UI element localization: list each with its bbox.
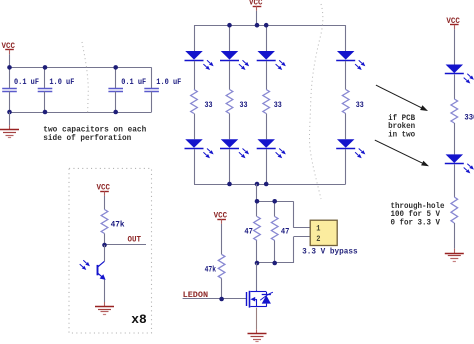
phototransistor Q2: [98, 245, 106, 280]
light arrows (emission of D4B): [355, 149, 365, 159]
wire R5 to bottom node: [256, 241, 258, 264]
LED D2A: [220, 51, 239, 61]
junction top bus c3: [264, 23, 269, 28]
wire col4 LED to resistor: [345, 61, 347, 90]
wire wire to pin 2: [294, 236, 311, 238]
svg-text:side of perforation: side of perforation: [43, 134, 131, 143]
wire col4 resistor to LED: [345, 114, 347, 140]
wire VCC to R10: [104, 196, 106, 210]
note: two capacitors on each side of perforation: [43, 126, 146, 144]
svg-text:in two: in two: [388, 130, 415, 139]
wire col1 resistor to LED: [194, 114, 196, 140]
wire R10 to OUT node: [104, 234, 106, 246]
wire node to R5: [256, 201, 258, 216]
svg-text:33: 33: [274, 100, 282, 110]
dashed outline box (repeated cell): [69, 168, 152, 333]
wire VCC to LED: [454, 29, 456, 64]
value label 47 (left): [244, 227, 253, 237]
resistor R4 33: [342, 90, 349, 114]
LED D2B: [220, 139, 239, 148]
wire bottom node to Q drain: [256, 263, 258, 290]
wire pin 2 down to bottom rail: [293, 237, 295, 263]
value label 33 (col 3): [274, 100, 282, 110]
junction cap bus A1: [7, 65, 12, 70]
value label 47 (right): [281, 227, 290, 237]
wire OUT net wire: [105, 244, 147, 246]
jumper JP1 (3.3 V bypass box): [310, 220, 337, 245]
wire col2 LED to resistor: [229, 61, 231, 90]
resistor R6 47: [271, 217, 278, 241]
value label 1.0 uF for C4: [156, 77, 181, 87]
junction bottom bus c3: [264, 182, 269, 187]
junction OUT junction: [102, 243, 107, 248]
junction cap bus A2: [43, 65, 48, 70]
wire VCC to top cap bus: [9, 54, 11, 67]
LED D5B: [445, 154, 464, 163]
note: if PCB broken in two: [388, 114, 415, 140]
perforation mark (left, dotted): [82, 42, 88, 114]
svg-text:1: 1: [316, 225, 320, 234]
pointer arrow (upper): [376, 85, 428, 111]
wire top rail down to jumper pin 1: [293, 201, 295, 228]
junction res bottom left: [255, 261, 260, 266]
junction top bus c2: [227, 23, 232, 28]
svg-text:OUT: OUT: [128, 235, 142, 244]
resistor R3 33: [263, 90, 270, 114]
wire col4 bus to LED: [345, 25, 347, 51]
wire col3 bus to LED: [266, 25, 268, 51]
light arrows (emission of D1B): [203, 149, 213, 159]
svg-text:x8: x8: [131, 313, 147, 327]
value label 1.0 uF for C2: [49, 77, 74, 87]
svg-text:0 for 3.3 V: 0 for 3.3 V: [391, 218, 441, 227]
value label 33 (col 2): [240, 100, 248, 110]
junction cap bus B3: [113, 110, 118, 115]
wire matrix bottom bus: [194, 184, 346, 186]
label x8: [131, 313, 147, 327]
light arrows (emission of D5A): [464, 74, 474, 84]
junction res top left: [255, 199, 260, 204]
LED D3A: [257, 51, 276, 61]
label 3.3 V bypass: [302, 248, 358, 257]
wire resistor to ground: [454, 223, 456, 249]
junction LEDON junction: [219, 297, 224, 302]
wire LED to resistor: [454, 74, 456, 99]
wire R6 to bottom node: [274, 241, 276, 264]
resistor R1 33: [191, 90, 198, 114]
junction res bottom right: [272, 261, 277, 266]
power symbol VCC (VCC right column): [446, 17, 460, 29]
svg-text:330: 330: [464, 113, 474, 123]
wire resistor top node rail: [257, 201, 294, 203]
wire col2 bus to LED: [229, 25, 231, 51]
value label 33 (right column): [464, 113, 474, 123]
light arrows (emission of D4A): [355, 60, 365, 70]
wire R7 to LEDON net: [221, 278, 223, 299]
power symbol VCC (VCC photo cell): [97, 184, 111, 196]
wire col1 LED to resistor: [194, 61, 196, 90]
junction cap bus A3: [113, 65, 118, 70]
wire VCC to R7: [221, 224, 223, 255]
ground symbol (MOSFET ground): [248, 329, 267, 341]
resistor R10 47k: [101, 210, 108, 234]
wire LEDON net to gate: [183, 298, 247, 300]
value label 33 (col 4): [356, 100, 364, 110]
capacitor C1: [2, 67, 17, 112]
wire Q1 source to ground: [256, 308, 258, 330]
wire resistor bottom node rail: [257, 262, 294, 264]
svg-text:47k: 47k: [111, 219, 125, 229]
junction bottom bus c2: [227, 182, 232, 187]
wire bottom bus to resistor node: [256, 184, 258, 201]
light arrows (emission of D1A): [203, 60, 213, 70]
transistor Q1 (N-MOSFET with body diode): [247, 290, 273, 307]
svg-text:33: 33: [356, 100, 364, 110]
wire resistor to LED: [454, 123, 456, 154]
resistor R8 33: [451, 99, 458, 123]
svg-text:47: 47: [281, 227, 290, 237]
svg-text:0.1 uF: 0.1 uF: [121, 77, 146, 87]
svg-text:0.1 uF: 0.1 uF: [14, 77, 39, 87]
value label 47k (mid): [205, 264, 217, 274]
LED D4B: [336, 139, 355, 148]
svg-text:33: 33: [205, 100, 213, 110]
light arrows (light into Q2): [80, 260, 90, 270]
wire bottom bus to ground: [9, 112, 11, 125]
LED D3B: [257, 139, 276, 148]
wire wire to pin 1: [294, 227, 311, 229]
note: through-hole resistor value: [391, 202, 445, 228]
svg-text:33: 33: [240, 100, 248, 110]
wire col3 LED to resistor: [266, 61, 268, 90]
light arrows (emission of D5B): [464, 164, 474, 174]
resistor R5 47: [254, 217, 261, 241]
resistor R7 47k: [218, 254, 225, 278]
wire col1 LED to bottom bus: [194, 149, 196, 184]
junction top bus vcc tap: [255, 23, 260, 28]
svg-text:1.0 uF: 1.0 uF: [49, 77, 74, 87]
power symbol VCC (VCC LED matrix): [249, 0, 263, 11]
wire top cap bus: [10, 67, 152, 69]
wire col1 bus to LED: [194, 25, 196, 51]
capacitor C2: [38, 67, 53, 112]
wire col3 LED to bottom bus: [266, 149, 268, 184]
resistor R2 33: [226, 90, 233, 114]
LED D1A: [185, 51, 204, 61]
svg-text:1.0 uF: 1.0 uF: [156, 77, 181, 87]
light arrows (emission of D2B): [239, 149, 249, 159]
ground symbol (cap section ground): [0, 125, 19, 137]
value label 47k (photo cell): [111, 219, 125, 229]
power symbol VCC (VCC 47k pullup): [214, 212, 228, 224]
light arrows (emission of D3A): [276, 60, 286, 70]
svg-text:47: 47: [244, 227, 253, 237]
junction cap bus B2: [43, 110, 48, 115]
ground symbol (photo cell ground): [95, 302, 114, 315]
value label 0.1 uF for C1: [14, 77, 39, 87]
value label 33 (col 1): [205, 100, 213, 110]
light arrows (emission of D3B): [276, 149, 286, 159]
LED D1B: [185, 139, 204, 148]
value label 0.1 uF for C3: [121, 77, 146, 87]
svg-text:3.3 V bypass: 3.3 V bypass: [302, 248, 358, 257]
ground symbol (right column ground): [445, 249, 464, 262]
LED D5A: [445, 65, 464, 74]
wire col4 LED to bottom bus: [345, 149, 347, 184]
svg-text:2: 2: [316, 235, 320, 244]
svg-text:47k: 47k: [205, 264, 217, 274]
wire Q2 emitter to ground: [104, 280, 106, 302]
junction res top right: [272, 199, 277, 204]
wire col3 resistor to LED: [266, 114, 268, 140]
wire matrix top bus: [194, 25, 346, 27]
LED D4A: [336, 51, 355, 61]
wire col2 resistor to LED: [229, 114, 231, 140]
pin number 1: [316, 225, 320, 234]
pin number 2: [316, 235, 320, 244]
wire col2 LED to bottom bus: [229, 149, 231, 184]
net label LEDON: [183, 291, 209, 300]
pointer arrow (lower): [375, 140, 429, 166]
wire node to R6: [274, 201, 276, 216]
wire bottom cap bus: [10, 112, 152, 114]
wire VCC to matrix top bus: [256, 11, 258, 25]
net label OUT: [128, 235, 142, 244]
wire LED to through-hole resistor: [454, 164, 456, 197]
resistor R9 through-hole: [451, 197, 458, 223]
capacitor C4: [144, 67, 159, 112]
light arrows (emission of D2A): [239, 60, 249, 70]
junction bottom bus tap: [255, 182, 260, 187]
capacitor C3: [108, 67, 123, 112]
power symbol VCC (VCC cap section): [2, 42, 16, 54]
perforation mark (right, dotted): [310, 4, 323, 199]
junction cap bus B1: [7, 110, 12, 115]
